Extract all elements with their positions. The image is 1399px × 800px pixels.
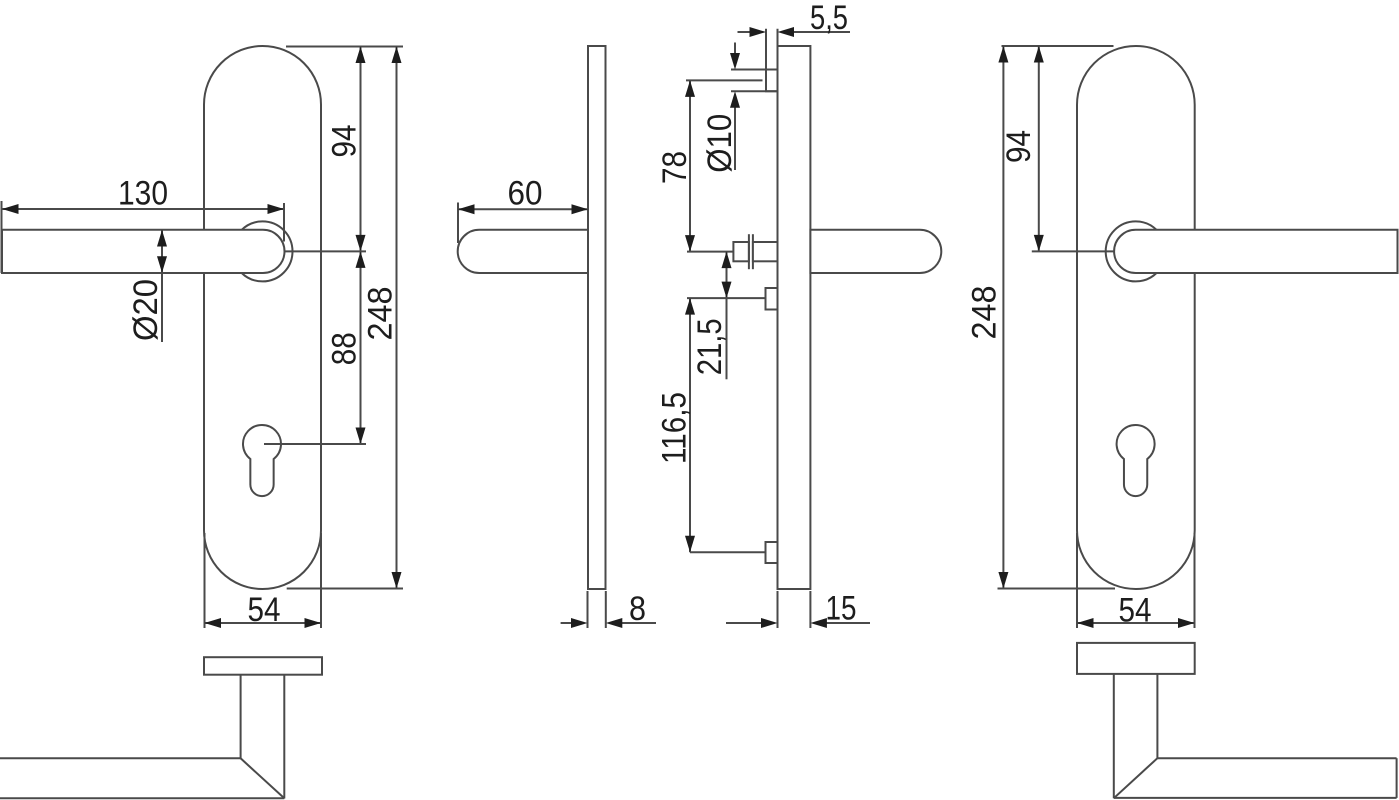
dim 5,5 line right: [794, 31, 851, 33]
dim 8 line left: [561, 622, 572, 624]
top screw cap: [766, 70, 778, 92]
dim d10 arrow up: [730, 91, 740, 108]
dim 94 line left fig: [360, 47, 362, 252]
svg-text:54: 54: [1119, 592, 1152, 630]
side view lever: [458, 230, 588, 273]
keyhole euro cylinder right: [1117, 425, 1155, 496]
svg-text:94: 94: [326, 125, 364, 158]
spindle washer line 1: [748, 234, 750, 269]
svg-text:116,5: 116,5: [656, 392, 694, 464]
dim 15 line right: [826, 622, 870, 624]
dim 60 ext line: [457, 203, 459, 244]
dim 78 arrow up: [685, 80, 695, 97]
svg-text:88: 88: [326, 332, 364, 365]
dim 130 arrow right: [268, 204, 285, 214]
dim d20 line: [161, 230, 163, 342]
dim 248 line left fig: [396, 47, 398, 589]
svg-text:94: 94: [1000, 130, 1038, 163]
svg-text:248: 248: [966, 286, 1004, 340]
dim 54 ext right right fig: [1194, 533, 1196, 628]
svg-text:130: 130: [118, 175, 168, 213]
dim 60 arrow right: [572, 204, 589, 214]
keyhole ext line: [264, 443, 366, 445]
dim 248 arrow down right fig: [998, 572, 1008, 589]
dim 54 line right fig: [1077, 622, 1195, 624]
bottom view miter diagonal right fig: [1114, 758, 1158, 798]
bottom view lever bottom edge left fig: [0, 797, 284, 799]
dim 248 arrow up right fig: [998, 46, 1008, 63]
dim 94 arrow down right fig: [1034, 235, 1044, 252]
lug1 ext line: [687, 297, 765, 299]
plate face ext line up: [777, 29, 779, 47]
dim d20 arrow down: [157, 256, 167, 273]
keyhole euro cylinder left: [243, 425, 281, 496]
dim 15 line left: [726, 622, 762, 624]
spindle center ext line: [687, 251, 733, 253]
dim 8 line right: [622, 622, 656, 624]
bottom view lever bottom edge right fig: [1114, 797, 1397, 799]
dim 248 arrow up left fig: [392, 47, 402, 64]
screw cap bottom ext: [731, 90, 777, 92]
svg-text:78: 78: [656, 151, 694, 184]
dim 54 line left fig: [205, 622, 322, 624]
top ext line right fig: [1002, 45, 1114, 47]
dim d10 lower line: [734, 107, 736, 170]
svg-text:54: 54: [248, 591, 281, 629]
bottom view lever end right fig: [1396, 758, 1398, 798]
dim 54 arrow left: [205, 618, 222, 628]
bottom view lever top edge right fig: [1157, 757, 1396, 759]
dim 8 ext left: [587, 591, 589, 628]
dim 54 arrow right right fig: [1178, 618, 1195, 628]
dim 60 line: [458, 208, 588, 210]
bottom view lever top edge left fig: [0, 757, 241, 759]
dim 94 arrow down left fig: [356, 235, 366, 252]
svg-text:Ø10: Ø10: [701, 114, 739, 173]
dim 8 ext right: [605, 591, 607, 628]
dim 21,5 arrow up: [722, 252, 732, 269]
dim 8 arrow left: [571, 618, 588, 628]
spindle head: [733, 242, 749, 261]
dim 54 arrow right: [305, 618, 322, 628]
dim 54 ext left right fig: [1076, 533, 1078, 628]
dim 8 arrow right: [606, 618, 623, 628]
dim 78 line: [689, 80, 691, 251]
dim 21,5 line with tail: [726, 252, 728, 380]
lug2 ext line: [690, 551, 765, 553]
dim 130 ext line left: [1, 201, 3, 273]
dim 78 arrow down: [685, 235, 695, 252]
dim 94 arrow up right fig: [1034, 46, 1044, 63]
fixing lug lower: [766, 542, 778, 563]
rose circle right: [1106, 221, 1166, 281]
bottom view neck left line right fig: [1113, 674, 1115, 798]
dim d10 arrow down: [730, 53, 740, 70]
svg-text:15: 15: [826, 590, 857, 628]
bottom view neck right line: [283, 675, 285, 799]
dim 54 ext right: [320, 533, 322, 628]
dim 88 arrow up: [356, 251, 366, 268]
dim 54 arrow left right fig: [1077, 618, 1094, 628]
bottom ext line right fig: [998, 588, 1116, 590]
centerline ext left fig: [284, 250, 366, 252]
bottom view miter diagonal left fig: [241, 758, 285, 798]
dim d20 arrow up: [157, 230, 167, 247]
dim 60 arrow left: [458, 204, 475, 214]
svg-text:21,5: 21,5: [691, 318, 729, 375]
spindle washer line 2: [752, 234, 754, 269]
centerline ext right fig: [1032, 250, 1115, 252]
dim d10 upper line: [734, 43, 736, 54]
dim 21,5 arrow down: [722, 282, 732, 299]
dim 15 arrow left: [761, 618, 778, 628]
bottom view slab left: [204, 657, 322, 675]
bottom view neck left line: [240, 675, 242, 759]
spindle shaft: [753, 242, 778, 261]
dim 116,5 arrow up: [685, 298, 695, 315]
backplate front view right: [1077, 46, 1195, 589]
dim 54 ext left: [204, 533, 206, 628]
section plate 15mm: [778, 46, 811, 589]
dim 88 arrow down: [356, 428, 366, 445]
dim 130 line: [2, 208, 284, 210]
side view thin plate: [588, 46, 606, 589]
dim 15 arrow right: [810, 618, 827, 628]
svg-text:60: 60: [508, 175, 543, 213]
dim 94 line right fig: [1038, 46, 1040, 251]
screw center ext line: [686, 79, 763, 81]
screw cap top ext: [731, 69, 766, 71]
screw face ext line: [765, 29, 767, 70]
svg-text:8: 8: [629, 590, 646, 628]
top ext line left fig: [286, 46, 403, 48]
dim 248 arrow down left fig: [392, 572, 402, 589]
rose circle left: [233, 221, 293, 281]
section lever right: [810, 230, 941, 273]
dim 116,5 line: [689, 298, 691, 552]
svg-text:5,5: 5,5: [810, 0, 848, 37]
lever handle front view right: [1114, 230, 1397, 273]
fixing lug upper: [766, 288, 778, 310]
dim 5,5 arrow left: [750, 27, 767, 37]
dim 94 arrow up left fig: [356, 47, 366, 64]
dim 15 ext left: [777, 591, 779, 628]
lever handle front view left: [2, 230, 284, 273]
dim 116,5 arrow down: [685, 536, 695, 553]
dim 248 line right fig: [1002, 46, 1004, 589]
dim 130 ext line right: [283, 203, 285, 242]
bottom view neck right line right fig: [1156, 674, 1158, 758]
dim 5,5 line left: [738, 31, 751, 33]
svg-text:Ø20: Ø20: [127, 279, 165, 341]
dim 88 line: [360, 251, 362, 444]
backplate front view left: [204, 46, 321, 589]
bottom ext line left fig: [287, 588, 403, 590]
dim 130 arrow left: [2, 204, 19, 214]
bottom view slab right: [1077, 643, 1195, 674]
dim 5,5 arrow right: [778, 27, 795, 37]
svg-text:248: 248: [362, 287, 400, 341]
dim 15 ext right: [809, 591, 811, 628]
